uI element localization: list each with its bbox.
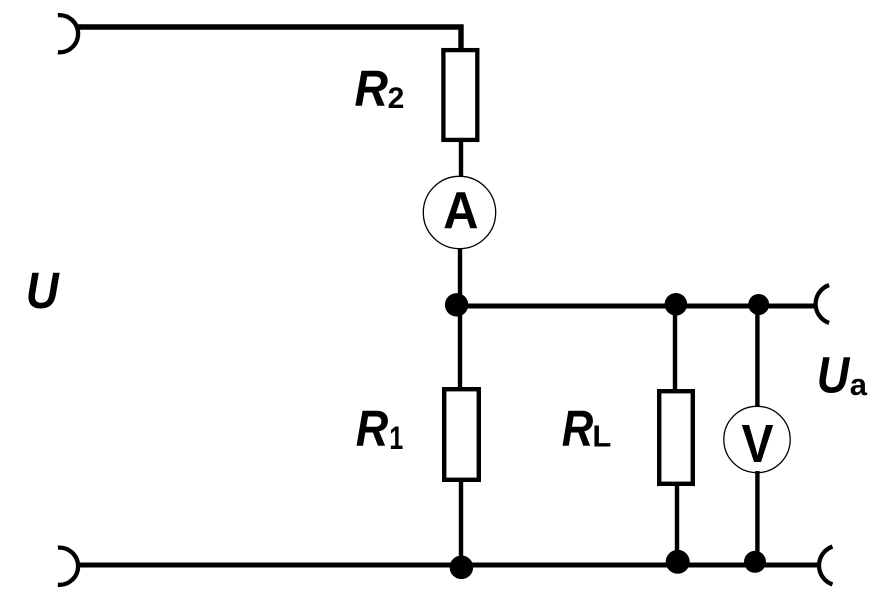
svg-text:R: R — [355, 60, 389, 117]
resistor R2 — [443, 50, 477, 140]
terminal top-left — [58, 15, 78, 52]
resistor R1 — [444, 389, 479, 480]
ammeter U-A circle — [423, 176, 495, 248]
wire R1 to bottom node — [459, 481, 463, 566]
svg-text:2: 2 — [388, 82, 405, 115]
node C junction dot above V — [748, 294, 769, 315]
terminal bottom-left — [58, 548, 78, 585]
node A junction dot — [445, 293, 468, 316]
node E junction dot bottom under RL — [666, 550, 690, 574]
wire bottom horizontal — [78, 563, 818, 568]
wire ammeter to node A — [458, 248, 462, 307]
svg-text:A: A — [443, 182, 478, 240]
node F junction dot bottom under V — [744, 551, 766, 573]
node D junction dot bottom under R1 — [450, 556, 474, 580]
svg-text:a: a — [850, 367, 868, 402]
wire top — [78, 27, 461, 50]
terminal bottom-right — [819, 547, 832, 585]
wire RL to bottom node E — [675, 485, 679, 562]
svg-text:1: 1 — [389, 420, 403, 456]
wire middle horizontal — [456, 304, 814, 309]
svg-text:V: V — [742, 415, 774, 474]
resistor RL — [659, 391, 693, 484]
svg-text:R: R — [356, 400, 389, 457]
wire voltmeter to bottom node F — [755, 471, 759, 562]
svg-text:L: L — [592, 419, 611, 454]
svg-text:R: R — [562, 400, 594, 457]
terminal right-middle — [816, 285, 829, 323]
node B junction dot above RL — [665, 293, 688, 316]
wire R2 to ammeter — [459, 140, 463, 177]
wire node B down to RL — [673, 304, 677, 390]
voltmeter U-V circle — [724, 406, 790, 472]
svg-text:U: U — [26, 262, 60, 319]
wire node A down to R1 — [458, 305, 462, 388]
wire node C down to voltmeter — [755, 304, 759, 408]
svg-text:U: U — [817, 347, 851, 404]
